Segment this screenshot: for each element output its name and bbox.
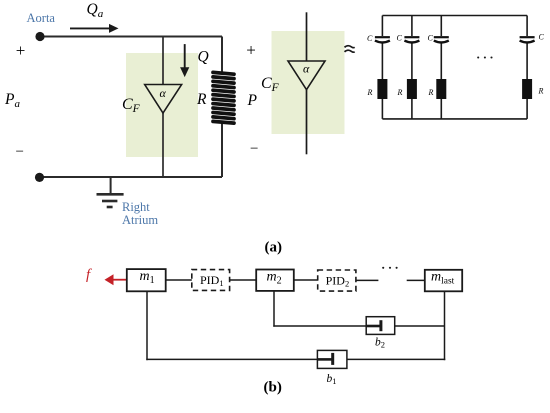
resistor R1 (solid): [377, 79, 387, 99]
node A : aorta terminal dot: [35, 32, 44, 41]
ellipsis dots (ladder continues): [477, 56, 492, 58]
op-amp style CF element U2 (triangle): [288, 61, 325, 90]
wire branch1 segments: [381, 16, 383, 37]
svg-text:C: C: [539, 32, 545, 41]
wire right branch upper (to resistor R): [221, 37, 223, 75]
wire damper b2 to mlast stem: [395, 325, 445, 327]
ellipsis dots (chain continues): [382, 267, 398, 269]
block PID1 (dashed): [192, 270, 230, 291]
capacitor C4: [520, 36, 535, 38]
svg-text:α: α: [303, 61, 310, 75]
red force arrow into m1: [105, 274, 127, 285]
wire top rail: [382, 15, 527, 17]
svg-text:Right: Right: [122, 200, 150, 214]
svg-text:+: +: [16, 41, 26, 60]
branch 3: [428, 16, 449, 119]
svg-text:P: P: [247, 92, 258, 109]
svg-text:−: −: [250, 141, 258, 157]
resistor R coil: [213, 72, 234, 123]
wire branch3 segments: [440, 16, 442, 37]
damper b2: [366, 317, 395, 335]
branch 2: [397, 16, 420, 119]
wire m2 to PID2: [294, 279, 318, 281]
capacitor C2: [404, 36, 419, 38]
svg-text:C: C: [428, 33, 434, 42]
resistor R4 (solid): [522, 79, 532, 99]
wire m1 stem down: [146, 291, 148, 360]
svg-text:R: R: [428, 88, 434, 97]
damper b1: [317, 350, 347, 368]
svg-text:R: R: [367, 88, 373, 97]
wire branch2 segments: [411, 16, 413, 37]
wire m1 to PID1: [166, 279, 192, 281]
wire m2 to damper b2: [273, 325, 366, 327]
block mlast: [425, 270, 462, 292]
branch 1: [367, 16, 390, 119]
wire middle branch upper (into CF triangle): [162, 37, 164, 85]
wire into mlast: [407, 279, 425, 281]
svg-text:R: R: [196, 91, 207, 108]
wire m1 to damper b1: [146, 358, 317, 360]
wire m2 stem down: [273, 291, 275, 327]
approx equal sign: [345, 46, 355, 53]
node B : lower-left terminal dot: [35, 173, 44, 182]
wire upper lead: [306, 12, 308, 61]
wire damper b1 to mlast stem: [347, 358, 445, 360]
svg-text:−: −: [16, 144, 24, 160]
svg-text:α: α: [160, 86, 167, 100]
resistor R3 (solid): [436, 79, 446, 99]
branch 4 (last): [520, 16, 545, 119]
wire top: node A to top-right corner: [40, 36, 222, 38]
block m1: [127, 269, 166, 291]
green highlight box around CF element (middle): [272, 31, 345, 134]
block PID2 (dashed): [318, 270, 356, 291]
capacitor C1: [375, 36, 390, 38]
svg-text:C: C: [397, 33, 403, 42]
flow arrow Q (downward): [180, 44, 189, 77]
resistor R2 (solid): [407, 79, 417, 99]
svg-text:Aorta: Aorta: [27, 11, 56, 25]
green highlight box around CF element (left circuit): [126, 53, 198, 157]
ground symbol: [97, 177, 124, 207]
wire middle branch lower (from CF triangle): [162, 113, 164, 177]
wire right branch lower (from resistor R): [221, 121, 223, 177]
wire bottom: node B to bottom-right corner: [40, 176, 222, 178]
svg-text:(b): (b): [264, 380, 282, 396]
flow arrow Qa: [70, 24, 119, 33]
svg-text:Q: Q: [198, 49, 209, 66]
wire branch4 segments: [526, 16, 528, 37]
wire bottom rail: [382, 118, 527, 120]
wire PID1 to m2: [230, 279, 257, 281]
svg-text:+: +: [246, 40, 256, 59]
svg-text:C: C: [367, 34, 373, 43]
wire PID2 onward: [357, 279, 379, 281]
wire mlast stem down: [444, 291, 446, 360]
svg-text:R: R: [397, 88, 403, 97]
wire lower lead: [306, 90, 308, 155]
svg-text:(a): (a): [265, 240, 283, 256]
capacitor C3: [434, 36, 449, 38]
svg-text:R: R: [538, 87, 544, 96]
block m2: [256, 270, 294, 291]
svg-text:Atrium: Atrium: [122, 213, 158, 227]
op-amp style CF element U1 (triangle): [145, 85, 182, 114]
